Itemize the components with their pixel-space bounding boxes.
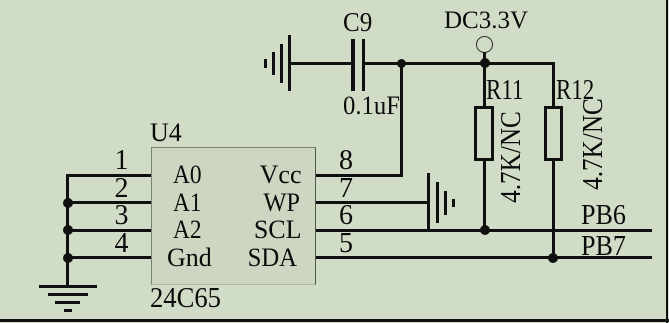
pin label Vcc [222,162,302,188]
value 0.1uF [343,93,400,119]
wire pin8 vertical to rail [400,62,403,177]
net label PB7 [581,233,626,261]
wire SDA net to PB7 [316,256,652,259]
junction node at DC3.3V [480,58,490,68]
wire pin7 WP stub to ground [316,201,430,204]
wire R11 bottom to SCL [483,161,486,232]
resistor R12 body [544,106,563,162]
pin label A0 [173,162,202,188]
designator R11 [486,77,523,105]
pin label WP [224,190,299,216]
pin number 2 [89,175,129,203]
junction dot pin4 [63,253,73,263]
ground symbol at WP bar3 [444,191,447,215]
frame border bottom [0,319,669,322]
ground symbol bottom-left bar2 [48,293,88,296]
pin label SDA [221,245,297,271]
pin number 7 [339,175,353,203]
junction dot R12/SDA [548,253,558,263]
ground symbol bottom-left bar3 [55,301,80,304]
pin number 4 [89,230,129,258]
net label PB6 [581,202,626,230]
pin number 5 [339,230,353,258]
wire pin8 Vcc stub [316,174,403,177]
wire C9 to power rail [365,62,555,65]
wire pin3 stub [66,229,151,232]
ground symbol at WP bar2 [436,182,439,223]
frame border right [666,0,668,323]
value 24C65 [150,285,221,313]
wire SCL net to PB6 [316,229,652,232]
ground symbol bottom-left bar1 [39,285,97,288]
wire circle to rail [483,52,486,63]
pin number 3 [89,202,129,230]
wire R12 bottom to SDA [552,161,555,259]
ground symbol at WP bar1 [427,173,430,229]
ground symbol bottom-left bar4 [64,309,72,312]
ground symbol at C9 bar2 [280,44,283,84]
wire ground to C9 left plate [290,62,352,65]
capacitor C9 right plate [362,39,365,91]
designator U4 [150,120,182,146]
pin number 8 [339,147,353,175]
ground symbol at C9 bar3 [272,52,275,76]
junction dot pin3 [63,225,73,235]
junction node at C9/Vcc [397,59,406,68]
wire rail to R11 top [483,63,486,106]
designator C9 [343,9,372,36]
pin number 1 [89,147,129,175]
pin number 6 [339,202,353,230]
IC body U4 (24C65) [151,147,316,285]
wire left bus vertical [66,174,69,287]
wire pin4 stub [66,256,151,259]
value 4.7K/NC of R12 [580,95,608,194]
net label DC3.3V [444,8,528,33]
pin label Gnd [167,245,212,271]
resistor R11 body [474,106,494,161]
value 4.7K/NC of R11 [498,107,526,206]
pin label A2 [173,217,202,243]
ground symbol at WP bar4 [452,199,455,207]
junction dot R11/SCL [480,225,490,235]
wire pin2 stub [66,201,151,204]
wire pin1 stub [66,174,151,177]
pin label SCL [222,217,302,243]
wire rail corner to R12 top [552,62,555,107]
junction dot pin2 [63,198,73,208]
pin label A1 [173,190,202,216]
ground symbol at C9 bar4 [264,59,267,68]
power port DC3.3V circle [476,36,493,53]
ground symbol at C9 bar1 [288,35,291,91]
capacitor C9 left plate [351,39,354,91]
designator R12 [556,77,594,105]
